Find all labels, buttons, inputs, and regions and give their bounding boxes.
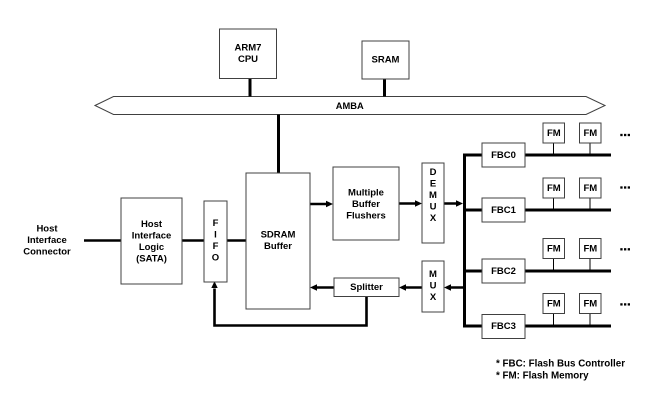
svg-text:I: I <box>214 230 217 241</box>
svg-text:* FBC: Flash Bus Controller: * FBC: Flash Bus Controller <box>496 359 625 370</box>
svg-text:FBC1: FBC1 <box>491 205 517 216</box>
svg-text:Buffer: Buffer <box>264 241 292 252</box>
svg-text:Multiple: Multiple <box>348 188 384 199</box>
svg-text:X: X <box>430 213 437 224</box>
svg-text:AMBA: AMBA <box>336 101 364 111</box>
svg-text:FBC2: FBC2 <box>491 266 516 277</box>
svg-text:O: O <box>212 253 219 264</box>
svg-text:U: U <box>430 202 437 213</box>
svg-text:FM: FM <box>547 299 561 310</box>
svg-text:X: X <box>430 292 437 303</box>
svg-text:FM: FM <box>547 244 561 255</box>
svg-text:Interface: Interface <box>132 231 172 242</box>
svg-text:Flushers: Flushers <box>346 211 386 222</box>
svg-text:FM: FM <box>547 183 561 194</box>
svg-text:Connector: Connector <box>23 247 71 258</box>
svg-text:CPU: CPU <box>238 54 258 65</box>
svg-text:Logic: Logic <box>139 242 164 253</box>
svg-text:Splitter: Splitter <box>350 282 383 293</box>
svg-text:FM: FM <box>583 128 597 139</box>
svg-text:* FM: Flash Memory: * FM: Flash Memory <box>496 371 589 382</box>
svg-text:Buffer: Buffer <box>352 199 380 210</box>
svg-text:FBC3: FBC3 <box>491 321 516 332</box>
svg-text:FM: FM <box>583 244 597 255</box>
svg-text:FBC0: FBC0 <box>491 150 516 161</box>
svg-text:Interface: Interface <box>27 235 67 246</box>
svg-text:Host: Host <box>141 219 163 230</box>
svg-text:Host: Host <box>36 224 58 235</box>
svg-text:D: D <box>430 167 437 178</box>
svg-text:(SATA): (SATA) <box>136 254 167 265</box>
svg-text:ARM7: ARM7 <box>235 43 262 54</box>
svg-text:FM: FM <box>583 183 597 194</box>
svg-text:F: F <box>213 218 219 229</box>
svg-text:SDRAM: SDRAM <box>261 230 296 241</box>
svg-text:E: E <box>430 179 436 190</box>
svg-text:M: M <box>429 190 437 201</box>
svg-text:SRAM: SRAM <box>372 55 400 66</box>
svg-text:F: F <box>213 241 219 252</box>
svg-text:FM: FM <box>547 128 561 139</box>
svg-text:FM: FM <box>583 299 597 310</box>
svg-text:U: U <box>430 281 437 292</box>
svg-text:M: M <box>429 269 437 280</box>
